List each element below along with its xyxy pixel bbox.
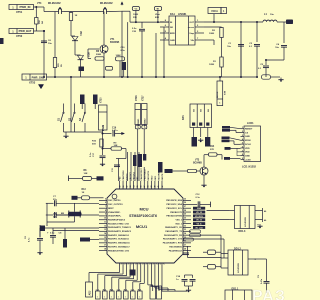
svg-text:PB11/I2C2_SDA: PB11/I2C2_SDA xyxy=(166,203,182,206)
svg-text:VSSA/VREF-: VSSA/VREF- xyxy=(108,211,121,214)
svg-text:30: 30 xyxy=(119,186,121,188)
svg-text:10u: 10u xyxy=(270,14,274,16)
svg-text:PB2/BOOT1: PB2/BOOT1 xyxy=(170,212,183,214)
svg-text:1: 1 xyxy=(132,297,133,299)
svg-text:22: 22 xyxy=(164,263,166,265)
svg-text:PWR_GND: PWR_GND xyxy=(32,76,45,79)
svg-text:8: 8 xyxy=(105,210,106,212)
svg-text:PB7/I2C1: PB7/I2C1 xyxy=(130,171,132,181)
svg-text:1K: 1K xyxy=(75,15,78,17)
svg-text:PA10/USART1_RX: PA10/USART1_RX xyxy=(164,234,183,237)
svg-text:PB0/ADC8/TIM3_CH3: PB0/ADC8/TIM3_CH3 xyxy=(108,249,130,252)
svg-text:PA0/WKUP/ADC0: PA0/WKUP/ADC0 xyxy=(108,218,126,221)
svg-text:PA15/JTDI: PA15/JTDI xyxy=(147,170,150,180)
svg-text:C22: C22 xyxy=(117,289,120,291)
svg-text:100K: 100K xyxy=(209,33,215,35)
svg-text:PA8/USART1_CK: PA8/USART1_CK xyxy=(165,226,182,229)
svg-text:200K: 200K xyxy=(96,54,102,56)
svg-text:PB8/TIM16: PB8/TIM16 xyxy=(123,169,125,180)
svg-text:STM32F100C4T6: STM32F100C4T6 xyxy=(129,214,157,218)
svg-text:R22: R22 xyxy=(103,289,106,291)
svg-text:32: 32 xyxy=(184,225,186,227)
svg-text:PA5/SPI1_SCK/ADC5: PA5/SPI1_SCK/ADC5 xyxy=(108,238,130,241)
svg-text:PA3/USART2_RX/ADC3: PA3/USART2_RX/ADC3 xyxy=(108,230,132,233)
svg-text:0.47u: 0.47u xyxy=(260,278,263,284)
svg-text:PA4/SPI1_NSS/ADC4: PA4/SPI1_NSS/ADC4 xyxy=(108,234,129,237)
svg-text:VD1: VD1 xyxy=(79,31,82,36)
svg-text:0.1u: 0.1u xyxy=(90,152,92,157)
svg-text:38: 38 xyxy=(184,248,186,250)
svg-text:4.7u: 4.7u xyxy=(28,237,31,242)
svg-text:C16: C16 xyxy=(112,128,117,130)
svg-text:28: 28 xyxy=(184,210,186,212)
svg-text:РАЗ: РАЗ xyxy=(252,288,286,300)
svg-text:14: 14 xyxy=(104,232,106,235)
svg-text:VT3: VT3 xyxy=(195,160,200,162)
svg-text:33: 33 xyxy=(184,229,186,231)
svg-text:27p: 27p xyxy=(53,216,57,218)
svg-text:PWR_IN: PWR_IN xyxy=(20,5,31,9)
svg-text:XT51: XT51 xyxy=(16,10,23,14)
svg-text:11: 11 xyxy=(104,221,106,223)
svg-text:HC4052D: HC4052D xyxy=(237,263,240,273)
svg-text:VSS_1: VSS_1 xyxy=(176,219,183,221)
svg-text:BHOK: BHOK xyxy=(217,91,219,98)
svg-text:Vbat: Vbat xyxy=(155,13,160,16)
svg-text:35: 35 xyxy=(137,186,139,188)
svg-text:PWR_BAT: PWR_BAT xyxy=(19,29,32,33)
svg-text:10K: 10K xyxy=(84,173,88,175)
svg-text:Vtap: Vtap xyxy=(189,32,194,35)
svg-text:PA9/TX: PA9/TX xyxy=(161,173,164,181)
svg-text:sense: sense xyxy=(188,27,195,29)
svg-text:PB1/ADC9/TIM3: PB1/ADC9/TIM3 xyxy=(166,215,182,218)
svg-text:OSC_OUT/PD1: OSC_OUT/PD1 xyxy=(108,204,124,206)
svg-text:CS: CS xyxy=(245,132,249,134)
svg-text:0.1u: 0.1u xyxy=(196,197,201,199)
svg-text:BC846B: BC846B xyxy=(193,162,202,165)
svg-text:RESET: RESET xyxy=(245,129,253,131)
svg-text:10: 10 xyxy=(104,218,106,220)
svg-text:51K: 51K xyxy=(92,143,96,145)
svg-text:XT53: XT53 xyxy=(29,81,36,85)
svg-text:10u: 10u xyxy=(48,43,52,45)
svg-text:VD_A: VD_A xyxy=(196,223,202,226)
svg-text:PA1/ADC1/TIM2_CH2: PA1/ADC1/TIM2_CH2 xyxy=(108,222,130,225)
svg-text:15: 15 xyxy=(104,237,106,239)
svg-text:18: 18 xyxy=(104,248,106,250)
svg-text:GND: GND xyxy=(245,155,250,157)
svg-text:GND: GND xyxy=(245,136,250,138)
svg-text:7: 7 xyxy=(105,206,106,208)
svg-text:LCD_N1202: LCD_N1202 xyxy=(242,166,257,169)
svg-text:PA13/SWDIO: PA13/SWDIO xyxy=(169,245,182,248)
svg-text:31: 31 xyxy=(184,221,186,223)
svg-text:39: 39 xyxy=(151,186,153,188)
svg-text:XT17: XT17 xyxy=(142,95,144,101)
svg-text:PA14/SWCLK: PA14/SWCLK xyxy=(169,249,183,252)
svg-text:VCCA: VCCA xyxy=(211,10,218,13)
svg-text:6: 6 xyxy=(105,202,106,204)
svg-text:LCD1: LCD1 xyxy=(247,122,254,125)
svg-text:26: 26 xyxy=(184,202,186,204)
svg-text:16: 16 xyxy=(104,241,106,243)
svg-text:KP1: KP1 xyxy=(182,115,185,120)
svg-text:PB10/I2C2_SCL: PB10/I2C2_SCL xyxy=(167,208,183,210)
svg-text:DD1.3: DD1.3 xyxy=(239,230,246,233)
svg-text:R24: R24 xyxy=(110,288,113,291)
svg-text:VDD: VDD xyxy=(245,148,250,150)
svg-text:14: 14 xyxy=(134,263,137,265)
svg-text:OSC_IN/PD0: OSC_IN/PD0 xyxy=(108,200,121,202)
svg-text:PB12/SPI2_NSS: PB12/SPI2_NSS xyxy=(166,200,182,202)
svg-text:25: 25 xyxy=(184,198,186,200)
svg-text:MOSI: MOSI xyxy=(245,140,251,142)
svg-text:VD_33: VD_33 xyxy=(196,220,202,222)
svg-text:1: 1 xyxy=(97,297,98,299)
svg-text:34: 34 xyxy=(132,186,135,188)
svg-text:DA1: DA1 xyxy=(170,13,175,16)
svg-text:VD_LCD: VD_LCD xyxy=(195,227,203,229)
svg-text:1: 1 xyxy=(139,297,140,299)
svg-text:0.1u: 0.1u xyxy=(121,50,126,52)
svg-text:ERR: ERR xyxy=(170,33,175,35)
svg-text:1: 1 xyxy=(111,297,112,299)
svg-text:PA11/USART1_CTS: PA11/USART1_CTS xyxy=(163,238,183,241)
svg-text:33: 33 xyxy=(130,186,132,188)
svg-text:NRST: NRST xyxy=(108,208,114,210)
svg-text:37: 37 xyxy=(184,245,186,247)
svg-text:120K: 120K xyxy=(209,64,215,66)
svg-text:PA6/SPI1_MISO/ADC6: PA6/SPI1_MISO/ADC6 xyxy=(108,242,131,245)
svg-text:PB3/TRACE: PB3/TRACE xyxy=(143,168,146,180)
svg-text:GND: GND xyxy=(197,208,202,210)
svg-text:LP2981: LP2981 xyxy=(178,13,187,16)
svg-text:VDD: VDD xyxy=(245,152,250,154)
svg-text:XT10: XT10 xyxy=(101,97,103,103)
svg-text:C21: C21 xyxy=(96,289,99,291)
svg-text:SD: SD xyxy=(170,27,173,29)
svg-text:XT52: XT52 xyxy=(16,34,23,38)
svg-text:20K: 20K xyxy=(39,20,41,24)
svg-text:17: 17 xyxy=(104,245,106,247)
svg-text:IRLML6402: IRLML6402 xyxy=(48,2,61,5)
svg-text:PA9/USART1_TX: PA9/USART1_TX xyxy=(165,230,182,233)
svg-text:HC4052D: HC4052D xyxy=(244,217,247,227)
svg-text:IRLML6402: IRLML6402 xyxy=(100,2,113,5)
svg-text:9: 9 xyxy=(105,214,106,216)
svg-text:31: 31 xyxy=(123,186,125,188)
svg-text:30: 30 xyxy=(184,218,186,220)
svg-text:37: 37 xyxy=(144,186,146,188)
svg-text:OUT: OUT xyxy=(189,22,194,24)
svg-text:BOOT0: BOOT0 xyxy=(127,173,129,181)
svg-text:13: 13 xyxy=(104,229,106,231)
svg-text:VD_MCU: VD_MCU xyxy=(195,216,204,218)
svg-text:PA12/USART1_RTS: PA12/USART1_RTS xyxy=(163,242,183,245)
svg-text:VDD_1: VDD_1 xyxy=(175,223,183,225)
svg-text:VT4: VT4 xyxy=(37,2,42,5)
svg-text:27: 27 xyxy=(184,206,186,208)
svg-text:36: 36 xyxy=(141,186,143,188)
svg-text:0.1u: 0.1u xyxy=(50,233,55,235)
svg-text:PB4/JNTRST: PB4/JNTRST xyxy=(140,167,143,180)
svg-text:PB6/I2C1: PB6/I2C1 xyxy=(134,171,136,181)
svg-text:5: 5 xyxy=(105,198,106,200)
svg-text:R14: R14 xyxy=(210,145,215,148)
svg-text:XT16: XT16 xyxy=(136,95,138,101)
svg-text:40: 40 xyxy=(154,186,157,188)
svg-text:PA2/USART2_TX/ADC2: PA2/USART2_TX/ADC2 xyxy=(108,226,132,229)
svg-text:VD_33: VD_33 xyxy=(196,212,202,214)
svg-text:SCLK: SCLK xyxy=(245,144,251,146)
svg-text:PA10/RX: PA10/RX xyxy=(158,172,161,181)
svg-text:12: 12 xyxy=(104,225,106,227)
svg-text:ADJ: ADJ xyxy=(89,290,92,295)
svg-text:1: 1 xyxy=(118,297,119,299)
svg-text:MCU: MCU xyxy=(139,207,148,212)
svg-text:R26: R26 xyxy=(138,289,141,291)
svg-text:10u: 10u xyxy=(275,47,279,49)
svg-text:BC846B: BC846B xyxy=(110,41,119,44)
svg-text:1: 1 xyxy=(104,297,105,299)
svg-text:C23: C23 xyxy=(131,289,134,291)
svg-text:38: 38 xyxy=(148,186,150,188)
svg-text:R25: R25 xyxy=(124,289,127,291)
svg-text:27p: 27p xyxy=(53,199,57,201)
svg-text:GND: GND xyxy=(170,40,175,42)
svg-text:29: 29 xyxy=(184,214,186,216)
svg-text:VDDA/VREF+: VDDA/VREF+ xyxy=(108,215,122,218)
svg-text:MCU1: MCU1 xyxy=(136,224,148,229)
svg-text:10u: 10u xyxy=(227,46,231,48)
svg-text:1: 1 xyxy=(125,297,126,299)
svg-text:42: 42 xyxy=(161,186,164,188)
svg-text:PA7/SPI1_MOSI/ADC7: PA7/SPI1_MOSI/ADC7 xyxy=(108,245,131,248)
svg-text:27K: 27K xyxy=(210,149,214,151)
svg-text:R13: R13 xyxy=(82,189,87,191)
svg-text:41: 41 xyxy=(157,186,160,188)
svg-text:1K: 1K xyxy=(82,192,85,194)
svg-text:32: 32 xyxy=(126,186,128,188)
svg-text:34: 34 xyxy=(184,232,186,235)
svg-text:+LED: +LED xyxy=(245,159,251,161)
svg-text:2.2u: 2.2u xyxy=(132,28,137,30)
